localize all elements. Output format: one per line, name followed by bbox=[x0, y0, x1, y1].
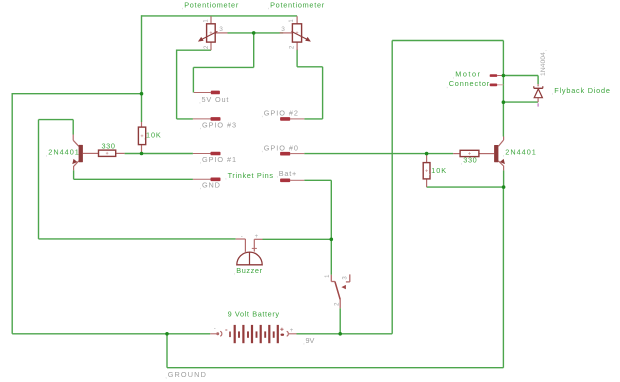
svg-text:1: 1 bbox=[325, 274, 331, 278]
svg-text:2N4401: 2N4401 bbox=[505, 148, 537, 157]
svg-text:,: , bbox=[225, 175, 226, 181]
svg-text:,: , bbox=[542, 50, 548, 51]
svg-text:GND: GND bbox=[202, 180, 221, 189]
svg-text:,: , bbox=[199, 99, 200, 105]
svg-text:,: , bbox=[268, 5, 269, 11]
svg-text:330: 330 bbox=[463, 156, 477, 165]
svg-text:,: , bbox=[277, 173, 278, 179]
svg-text:Trinket Pins: Trinket Pins bbox=[228, 171, 274, 180]
svg-text:10K: 10K bbox=[146, 131, 162, 140]
svg-text:,: , bbox=[46, 152, 47, 158]
svg-text:,: , bbox=[200, 125, 201, 131]
svg-text:1: 1 bbox=[204, 19, 210, 23]
svg-text:,: , bbox=[165, 374, 166, 380]
svg-text:Flyback Diode: Flyback Diode bbox=[554, 86, 610, 95]
svg-text:Motor: Motor bbox=[455, 70, 481, 79]
svg-text:9V: 9V bbox=[306, 336, 315, 345]
svg-text:9 Volt Battery: 9 Volt Battery bbox=[228, 309, 280, 318]
svg-text:+: + bbox=[255, 234, 259, 240]
svg-text:,: , bbox=[234, 270, 235, 276]
svg-text:3: 3 bbox=[281, 26, 285, 33]
svg-text:2: 2 bbox=[290, 45, 296, 49]
svg-text:-: - bbox=[241, 234, 243, 240]
svg-text:,: , bbox=[503, 152, 504, 158]
svg-text:,: , bbox=[303, 340, 304, 346]
svg-text:GPIO #2: GPIO #2 bbox=[264, 108, 299, 117]
svg-text:,: , bbox=[429, 170, 430, 176]
svg-text:3: 3 bbox=[219, 26, 223, 33]
svg-text:1N4004: 1N4004 bbox=[540, 52, 547, 76]
svg-text:,: , bbox=[200, 159, 201, 165]
svg-text:,: , bbox=[262, 113, 263, 119]
svg-text:,: , bbox=[262, 148, 263, 154]
svg-text:,: , bbox=[446, 83, 447, 89]
svg-text:330: 330 bbox=[102, 142, 116, 151]
svg-text:2N4401: 2N4401 bbox=[48, 148, 80, 157]
svg-text:,: , bbox=[461, 160, 462, 166]
svg-text:2: 2 bbox=[204, 45, 210, 49]
svg-text:-: - bbox=[214, 326, 216, 332]
svg-text:GPIO #0: GPIO #0 bbox=[264, 143, 299, 152]
svg-text:GPIO #3: GPIO #3 bbox=[202, 120, 237, 129]
svg-text:,: , bbox=[144, 135, 145, 141]
svg-text:Bat+: Bat+ bbox=[279, 169, 297, 178]
svg-text:2: 2 bbox=[334, 302, 340, 306]
svg-text:3: 3 bbox=[342, 276, 348, 280]
svg-text:Potentiometer: Potentiometer bbox=[184, 0, 239, 9]
svg-text:5V Out: 5V Out bbox=[202, 95, 230, 104]
svg-text:+: + bbox=[290, 328, 294, 334]
svg-text:,: , bbox=[182, 5, 183, 11]
svg-text:1: 1 bbox=[289, 19, 295, 23]
svg-text:10K: 10K bbox=[431, 166, 447, 175]
svg-text:Connector: Connector bbox=[449, 79, 490, 88]
svg-text:,: , bbox=[200, 185, 201, 191]
svg-text:,: , bbox=[552, 90, 553, 96]
svg-text:GPIO #1: GPIO #1 bbox=[202, 155, 237, 164]
svg-text:Potentiometer: Potentiometer bbox=[270, 0, 325, 9]
svg-text:GROUND: GROUND bbox=[168, 370, 207, 379]
svg-text:Buzzer: Buzzer bbox=[236, 266, 262, 275]
